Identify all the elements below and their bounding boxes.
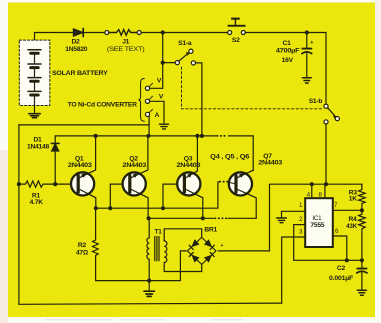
node emitter Q3 xyxy=(195,134,199,138)
switch S1-b xyxy=(324,104,340,124)
svg-text:2N4403: 2N4403 xyxy=(258,160,282,167)
node C2 top xyxy=(360,258,364,262)
node emitter Q1 xyxy=(94,134,98,138)
wire pin2 xyxy=(294,225,306,261)
svg-text:S1-a: S1-a xyxy=(178,40,192,47)
resistor R3 xyxy=(359,184,366,210)
svg-text:0.001µF: 0.001µF xyxy=(329,275,353,282)
svg-text:43K: 43K xyxy=(346,223,357,230)
svg-text:7555: 7555 xyxy=(310,222,324,229)
brace Ni-Cd xyxy=(138,79,144,122)
wire base line to Q1 xyxy=(55,183,70,185)
node R1 left xyxy=(17,182,21,186)
capacitor C2 xyxy=(357,260,367,289)
node C1 tap xyxy=(305,30,309,34)
wire V2 to ground xyxy=(150,101,164,123)
transformer T1 primary coil xyxy=(147,218,149,280)
svg-text:R2: R2 xyxy=(78,242,87,249)
pushbutton S2 xyxy=(228,18,246,35)
wire A drop to emitter bus xyxy=(148,116,150,135)
diode D1 xyxy=(51,136,59,184)
wire battery to ground xyxy=(34,96,36,113)
node R3 R4 pin7 xyxy=(360,208,364,212)
terminal V2 xyxy=(145,99,149,103)
wire pin4 stub xyxy=(311,184,313,198)
node base bus Q1C xyxy=(94,206,98,210)
node D1 junction xyxy=(53,182,57,186)
bottom margin cropped caption remnants xyxy=(46,319,242,321)
node pin6 drop xyxy=(345,258,349,262)
transistor Q2 xyxy=(123,136,149,218)
dashed gang link S1 xyxy=(182,67,323,109)
svg-text:47Ω: 47Ω xyxy=(76,249,88,256)
node emitter Q2 / A drop xyxy=(146,134,150,138)
collector bus right xyxy=(228,217,256,219)
transistor Q3 xyxy=(177,136,203,218)
emitter bus right to Q7 xyxy=(229,136,254,171)
diode D2 xyxy=(73,29,83,37)
wire Q2 base riser xyxy=(110,184,123,208)
wire timing line pin2 pin6 R4 C2 xyxy=(294,259,362,261)
node collector T1 xyxy=(147,216,151,220)
base bus dotted to Q7 xyxy=(220,181,228,183)
tick V1 xyxy=(149,83,152,86)
capacitor C1 xyxy=(302,33,312,78)
wire ammeter rail xyxy=(19,124,149,126)
node base Q2 riser xyxy=(108,206,112,210)
emitter bus dotted break xyxy=(217,135,228,137)
terminal A xyxy=(145,112,149,116)
wire left bus xyxy=(19,125,282,304)
base bus Q1 collector xyxy=(96,182,219,208)
wire T1 secondary top to BR1 xyxy=(164,229,202,241)
svg-text:1K: 1K xyxy=(349,196,357,203)
wire D2 to J1 xyxy=(84,32,105,34)
svg-text:J1: J1 xyxy=(122,39,129,46)
ground below C1 xyxy=(302,78,311,83)
svg-text:+: + xyxy=(310,40,313,46)
schematic part 2 placeholder xyxy=(71,136,367,303)
IC1 7555 box xyxy=(305,198,333,247)
wire pin7 to R3R4 xyxy=(333,209,362,211)
bridge rectifier BR1 xyxy=(187,237,216,264)
svg-text:T1: T1 xyxy=(154,228,162,235)
svg-text:2N4403: 2N4403 xyxy=(122,162,146,169)
wire Q3 base riser xyxy=(163,184,177,208)
svg-text:Q4 , Q5 , Q6: Q4 , Q5 , Q6 xyxy=(210,154,250,161)
node pin8 riser xyxy=(324,182,328,186)
svg-text:C2: C2 xyxy=(337,265,346,272)
connector J1 right terminal xyxy=(137,31,141,35)
wire pin1 to ground xyxy=(282,211,306,217)
svg-text:16V: 16V xyxy=(282,57,294,64)
wire dotted into Q7 base xyxy=(228,182,236,184)
svg-text:A: A xyxy=(154,112,159,119)
svg-text:(SEE TEXT): (SEE TEXT) xyxy=(107,46,145,53)
J1 jumper zigzag xyxy=(109,30,137,36)
solar battery dashed box xyxy=(19,40,50,105)
wire S2 to top-right corner down to S1-b xyxy=(245,33,326,105)
transistor Q7 xyxy=(229,170,256,218)
collector bus xyxy=(148,217,213,219)
svg-text:D1: D1 xyxy=(33,137,42,144)
ground below V2 xyxy=(159,124,168,129)
wire S1-b to VCC rail xyxy=(325,124,327,184)
ground pin1 xyxy=(277,218,287,223)
node pin4 riser xyxy=(310,182,314,186)
node base Q3 riser xyxy=(161,206,165,210)
svg-text:TO Ni-Cd CONVERTER: TO Ni-Cd CONVERTER xyxy=(68,102,138,109)
svg-text:D2: D2 xyxy=(71,39,80,46)
emitter bus xyxy=(55,135,216,137)
transformer T1 core xyxy=(155,237,159,261)
svg-text:1N5820: 1N5820 xyxy=(65,46,87,53)
transistor Q1 xyxy=(71,136,96,208)
wire R2 bottom to BR1 negative xyxy=(96,251,187,281)
svg-text:4700µF: 4700µF xyxy=(276,48,300,55)
ground below C2 xyxy=(357,290,366,295)
node S1-a feed xyxy=(200,134,204,138)
wire pin6 xyxy=(333,236,347,260)
wire pin3 to bottom bus xyxy=(282,237,306,303)
connector J1 left terminal xyxy=(105,31,109,35)
svg-text:4.7K: 4.7K xyxy=(30,199,44,206)
tick A xyxy=(149,109,152,112)
wire J1 to S2 xyxy=(141,32,227,34)
terminal V1 xyxy=(145,86,149,90)
wire T1 secondary bottom to BR1 xyxy=(164,263,202,272)
tick V2 xyxy=(149,96,152,99)
svg-text:BR1: BR1 xyxy=(204,227,217,234)
battery cells xyxy=(28,50,41,95)
svg-text:S2: S2 xyxy=(232,37,240,44)
resistor R1 xyxy=(19,181,55,187)
node top rail S1-a tap xyxy=(161,30,165,34)
svg-text:IC1: IC1 xyxy=(312,215,322,222)
wire top rail from battery to D2 xyxy=(35,33,74,50)
svg-text:S1-b: S1-b xyxy=(309,98,323,105)
VCC rail to R3 xyxy=(270,184,362,186)
resistor R4 xyxy=(359,210,366,260)
svg-text:1N4148: 1N4148 xyxy=(27,144,49,151)
node T1 bottom ground xyxy=(147,279,151,283)
svg-text:C1: C1 xyxy=(283,40,292,47)
svg-text:+: + xyxy=(220,243,223,249)
svg-text:SOLAR BATTERY: SOLAR BATTERY xyxy=(52,70,108,77)
wire pin8 stub xyxy=(325,184,326,198)
wire BR1 plus to VCC rail xyxy=(218,184,269,251)
resistor R2 xyxy=(93,208,99,280)
ground below T1 xyxy=(144,281,154,297)
svg-text:2N4403: 2N4403 xyxy=(177,162,201,169)
svg-text:2N4403: 2N4403 xyxy=(68,162,92,169)
collector bus dotted break xyxy=(215,217,227,219)
svg-text:R4: R4 xyxy=(348,216,357,223)
transformer T1 secondary coil xyxy=(164,241,167,263)
switch S1-a xyxy=(161,33,202,135)
wire V1 to S1-a pole line xyxy=(150,87,163,89)
ground below battery xyxy=(29,114,40,118)
node collector Q3 xyxy=(201,216,205,220)
